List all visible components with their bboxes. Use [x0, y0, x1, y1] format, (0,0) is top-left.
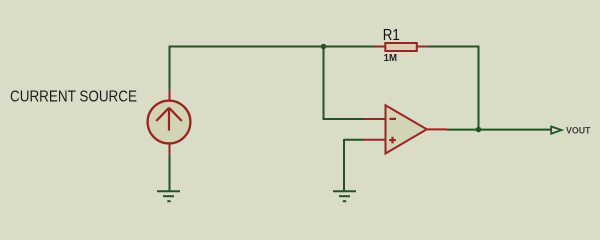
current source I1 circle [148, 101, 191, 144]
op-amp U1 non-inverting input pin [364, 139, 386, 141]
svg-text:R1: R1 [383, 27, 400, 44]
svg-text:1M: 1M [384, 53, 397, 64]
pin: current source bottom pin [169, 144, 171, 155]
wire: vertical from feedback junction down to inverting input [323, 47, 325, 120]
svg-text:CURRENT SOURCE: CURRENT SOURCE [10, 89, 137, 106]
wire: vertical from current source top corner down [169, 46, 171, 92]
wire: horizontal into inverting input [323, 118, 365, 120]
wire: top horizontal from R1 right pin to right corner [428, 46, 479, 48]
ground symbol under non-inverting input [333, 191, 356, 201]
wire: top horizontal from current source to R1 left pin [170, 46, 376, 48]
resistor R1 left pin [375, 46, 387, 48]
op-amp U1 output pin [426, 128, 447, 130]
resistor R1 body [385, 43, 417, 51]
wire: right vertical down to output node [478, 46, 480, 130]
op-amp U1 triangle body [386, 105, 427, 153]
junction node at output [476, 127, 482, 133]
current source arrow [156, 108, 182, 131]
wire: vertical from non-inverting input down to ground [343, 139, 345, 191]
wire: horizontal into non-inverting input [344, 139, 364, 141]
svg-text:VOUT: VOUT [566, 126, 591, 137]
wire: current source bottom to ground [169, 154, 171, 191]
pin: current source top pin [169, 90, 171, 100]
op-amp minus input symbol [390, 118, 397, 120]
resistor R1 right pin [417, 46, 429, 48]
op-amp U1 inverting input pin [364, 118, 386, 120]
op-amp plus input symbol [389, 137, 396, 144]
ground symbol under current source [157, 191, 180, 201]
terminal VOUT arrow [551, 127, 561, 134]
junction node at feedback tap [321, 44, 327, 50]
wire: op-amp output to VOUT terminal [447, 129, 552, 131]
